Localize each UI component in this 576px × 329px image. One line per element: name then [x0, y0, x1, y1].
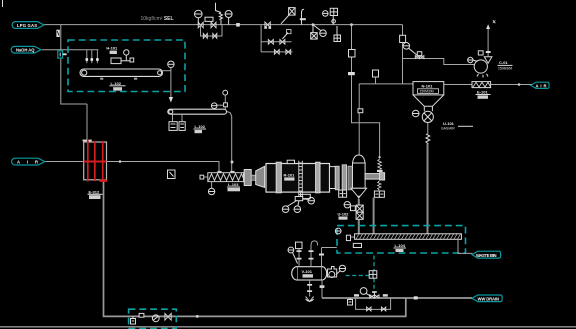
svg-text:150M3/M: 150M3/M: [498, 67, 512, 71]
svg-text:LPG GAS: LPG GAS: [17, 23, 37, 28]
svg-text:L-103: L-103: [228, 182, 239, 187]
svg-text:WASTE BIN: WASTE BIN: [476, 253, 497, 258]
svg-text:10kgf/cm² SEL: 10kgf/cm² SEL: [141, 16, 174, 22]
svg-text:U-101: U-101: [443, 121, 455, 126]
svg-text:L-102: L-102: [195, 124, 206, 129]
svg-text:GAS/AIR: GAS/AIR: [441, 127, 455, 131]
svg-text:C-01: C-01: [499, 60, 508, 65]
svg-text:150M3/M: 150M3/M: [420, 90, 434, 94]
svg-text:V-101: V-101: [302, 269, 313, 274]
svg-text:U-102: U-102: [338, 212, 350, 217]
svg-text:AIR: AIR: [536, 83, 547, 88]
svg-text:NaOH AQ: NaOH AQ: [16, 48, 35, 53]
svg-text:L-102: L-102: [111, 81, 122, 86]
svg-text:E-101: E-101: [477, 90, 488, 95]
svg-text:R-101: R-101: [284, 172, 296, 177]
svg-text:H-101: H-101: [106, 46, 118, 51]
svg-text:WW DRAIN: WW DRAIN: [478, 297, 500, 302]
svg-text:L-104: L-104: [395, 243, 406, 248]
svg-text:E-312: E-312: [89, 189, 100, 194]
svg-text:N-101: N-101: [422, 84, 434, 89]
